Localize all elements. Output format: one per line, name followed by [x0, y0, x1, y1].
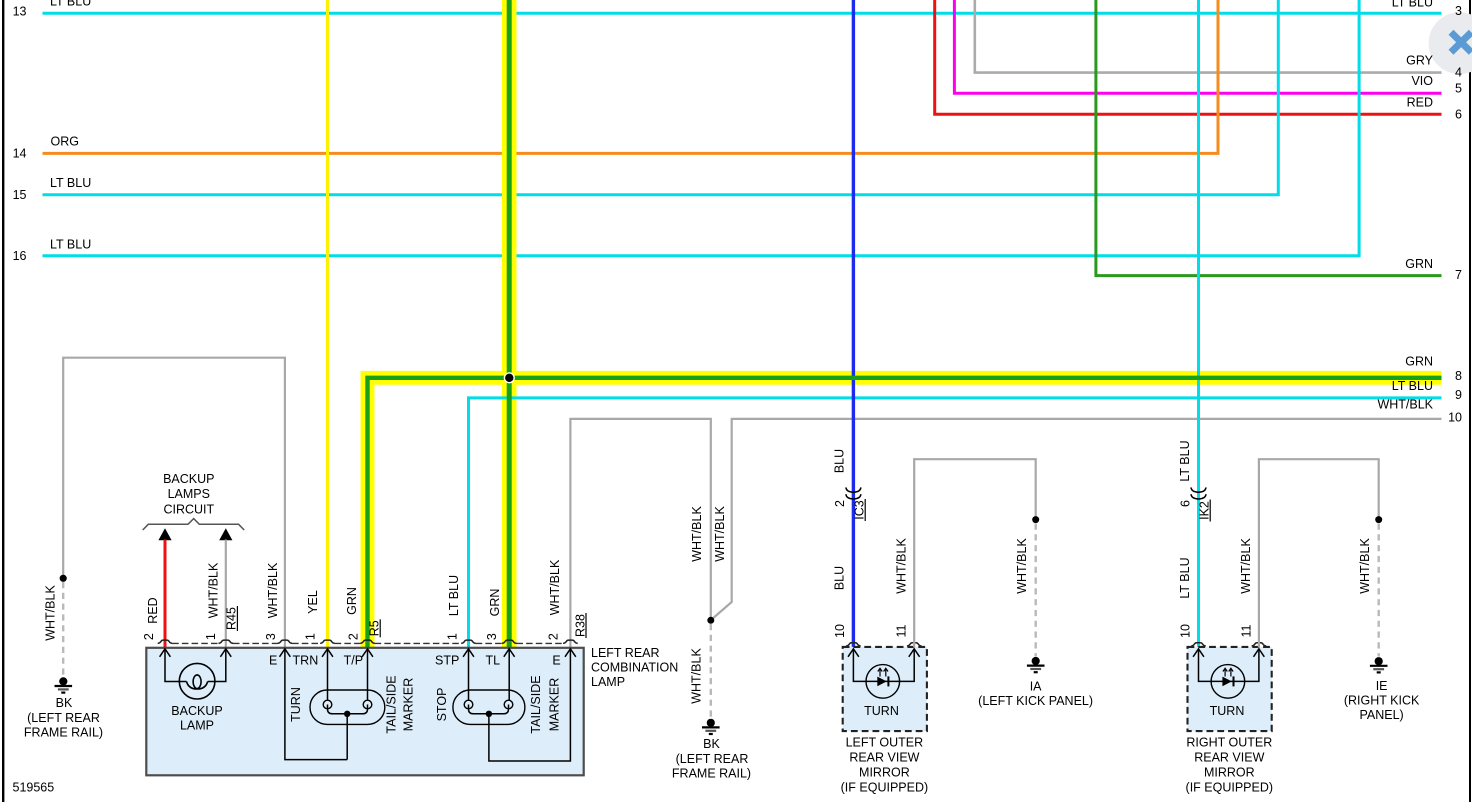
stop bulb oval: [453, 690, 525, 724]
svg-text:IC3: IC3: [853, 500, 867, 520]
svg-text:MIRROR: MIRROR: [859, 766, 910, 780]
arrow up backup WHT/BLK: [219, 528, 232, 540]
ground IE: [1370, 657, 1388, 672]
svg-text:TURN: TURN: [289, 687, 303, 722]
dashed WHT/BLK to IA ground: [1034, 524, 1036, 657]
svg-text:14: 14: [13, 147, 27, 161]
svg-text:STP: STP: [435, 654, 459, 668]
svg-text:E: E: [552, 654, 560, 668]
svg-text:BACKUP: BACKUP: [171, 704, 222, 718]
turn bulb oval: [310, 690, 385, 724]
svg-text:GRY: GRY: [1406, 53, 1434, 67]
svg-text:IK2: IK2: [1198, 501, 1212, 520]
svg-text:LAMP: LAMP: [180, 719, 214, 733]
svg-text:1: 1: [446, 633, 460, 640]
svg-text:COMBINATION: COMBINATION: [591, 661, 678, 675]
svg-text:WHT/BLK: WHT/BLK: [1377, 397, 1433, 411]
svg-text:11: 11: [895, 624, 909, 637]
backup lamp bulb: [179, 663, 215, 699]
arrow up backup RED: [158, 528, 171, 540]
wire WHT/BLK pin 11 right mirror: [1259, 459, 1379, 647]
wire GRN green core main vertical: [507, 0, 512, 648]
left mirror pin arrows: [848, 649, 859, 657]
connector IC3 on BLU wire: [846, 487, 861, 499]
right mirror pin bumps: [1191, 643, 1206, 646]
svg-text:2: 2: [347, 633, 361, 640]
svg-text:MIRROR: MIRROR: [1204, 766, 1255, 780]
svg-text:T/P: T/P: [344, 654, 363, 668]
border frame: [2, 0, 4, 802]
right mirror LED diode: [1222, 677, 1231, 687]
svg-text:WHT/BLK: WHT/BLK: [1358, 538, 1372, 594]
TL lead: [508, 649, 510, 701]
turn bulb bus: [328, 705, 368, 714]
TRN lead: [327, 649, 329, 701]
svg-text:IA: IA: [1030, 679, 1042, 693]
svg-text:E: E: [269, 654, 277, 668]
svg-text:WHT/BLK: WHT/BLK: [43, 585, 57, 641]
connector dashed line over lamp box: [172, 642, 563, 644]
left mirror LED diode: [877, 677, 886, 687]
svg-text:(RIGHT KICK: (RIGHT KICK: [1344, 694, 1420, 708]
svg-text:BLU: BLU: [833, 566, 847, 590]
svg-text:R45: R45: [225, 607, 239, 630]
svg-text:R38: R38: [573, 614, 587, 637]
svg-text:LT BLU: LT BLU: [1178, 557, 1192, 598]
svg-text:TURN: TURN: [864, 704, 899, 718]
splice dot left WHT/BLK: [60, 575, 67, 582]
ground BK left (far left): [55, 677, 73, 692]
svg-text:TAIL/SIDE: TAIL/SIDE: [384, 675, 398, 733]
svg-text:TRN: TRN: [293, 654, 319, 668]
dashed WHT/BLK to IE ground: [1377, 524, 1379, 657]
left mirror pin bumps: [846, 643, 861, 646]
left mirror box: [843, 647, 927, 731]
svg-text:WHT/BLK: WHT/BLK: [894, 538, 908, 594]
svg-text:BK: BK: [703, 737, 720, 751]
stop filament loops: [464, 700, 473, 709]
splice dot right kick panel wire: [1375, 516, 1382, 523]
svg-text:6: 6: [1178, 500, 1192, 507]
svg-text:BLU: BLU: [833, 449, 847, 473]
wire WHT/BLK pin 11 left mirror: [914, 459, 1035, 647]
ground IA: [1027, 657, 1045, 672]
splice dot WHT/BLK rear: [707, 617, 714, 624]
svg-text:RED: RED: [1407, 95, 1433, 109]
svg-text:3: 3: [1455, 4, 1462, 18]
wire YEL turn vertical: [326, 0, 329, 648]
stop bulb bus: [469, 705, 509, 714]
turn junction dot: [344, 711, 350, 717]
svg-text:10: 10: [1448, 410, 1462, 424]
svg-text:CIRCUIT: CIRCUIT: [163, 502, 214, 516]
wire GRN 7: [1096, 0, 1442, 276]
svg-text:LT BLU: LT BLU: [1178, 440, 1192, 481]
connector ref R38 underlined: [573, 613, 587, 638]
internal wires lamp box: [165, 649, 570, 761]
left mirror LED circle: [866, 665, 900, 699]
wire 13/3 LT BLU horizontal: [43, 12, 1442, 15]
svg-text:1: 1: [204, 633, 218, 640]
svg-text:5: 5: [1455, 82, 1462, 96]
svg-text:IE: IE: [1376, 679, 1388, 693]
wire GRN 8 highlighted: yellow band main vertical: [502, 0, 517, 648]
svg-text:VIO: VIO: [1411, 74, 1433, 88]
svg-text:WHT/BLK: WHT/BLK: [690, 506, 704, 562]
svg-text:9: 9: [1455, 388, 1462, 402]
svg-text:LT BLU: LT BLU: [50, 237, 91, 251]
svg-text:13: 13: [13, 5, 27, 19]
svg-text:FRAME RAIL): FRAME RAIL): [24, 725, 103, 739]
svg-text:(LEFT KICK PANEL): (LEFT KICK PANEL): [978, 694, 1093, 708]
svg-text:TAIL/SIDE: TAIL/SIDE: [529, 675, 543, 733]
svg-text:MARKER: MARKER: [402, 678, 416, 731]
wire VIO 5: [954, 0, 1441, 93]
wire LT BLU mirror right vertical: [1197, 0, 1200, 648]
svg-text:WHT/BLK: WHT/BLK: [713, 506, 727, 562]
svg-text:(IF EQUIPPED): (IF EQUIPPED): [1186, 781, 1274, 795]
svg-text:LT BLU: LT BLU: [50, 176, 91, 190]
svg-text:LT BLU: LT BLU: [1392, 0, 1433, 10]
STP lead: [468, 649, 470, 701]
T/P lead: [367, 649, 369, 701]
svg-text:REAR VIEW: REAR VIEW: [1194, 751, 1264, 765]
svg-text:LT BLU: LT BLU: [50, 0, 91, 8]
svg-text:YEL: YEL: [306, 590, 320, 614]
svg-text:LEFT OUTER: LEFT OUTER: [846, 736, 924, 750]
svg-text:6: 6: [1455, 108, 1462, 122]
wire RED 6: [935, 0, 1442, 114]
ground BK left rear frame rail (center): [702, 719, 720, 734]
svg-text:LEFT REAR: LEFT REAR: [591, 646, 660, 660]
svg-text:(IF EQUIPPED): (IF EQUIPPED): [841, 781, 929, 795]
left mirror internal wires: [853, 649, 914, 682]
svg-text:WHT/BLK: WHT/BLK: [548, 559, 562, 615]
connector ref IK2 underlined: [1198, 500, 1212, 522]
svg-text:BK: BK: [56, 696, 73, 710]
svg-text:GRN: GRN: [1405, 354, 1433, 368]
svg-text:WHT/BLK: WHT/BLK: [1239, 538, 1253, 594]
svg-text:RED: RED: [146, 597, 160, 623]
right mirror internal wires: [1199, 649, 1259, 682]
svg-text:REAR VIEW: REAR VIEW: [849, 751, 919, 765]
svg-text:2: 2: [142, 633, 156, 640]
dashed WHT/BLK to left ground: [62, 582, 64, 677]
wire LT BLU 9 to STP pin: [469, 398, 1442, 648]
svg-text:16: 16: [13, 249, 27, 263]
pin arrows lamp box: [160, 649, 171, 657]
connector ref R45 underlined: [225, 606, 239, 631]
svg-text:WHT/BLK: WHT/BLK: [690, 648, 704, 704]
left rear combination lamp box: [146, 648, 583, 776]
backup lamp leads: [165, 649, 226, 682]
wire BLU mirror left vertical: [852, 0, 855, 648]
splice dot left kick panel wire: [1032, 516, 1039, 523]
svg-text:10: 10: [833, 624, 847, 638]
junction halo yellow: [501, 369, 518, 386]
svg-text:GRN: GRN: [345, 587, 359, 615]
brace: [143, 519, 245, 530]
svg-text:WHT/BLK: WHT/BLK: [207, 562, 221, 618]
wire GRY 4: [975, 0, 1442, 73]
svg-text:15: 15: [13, 188, 27, 202]
wire WHT/BLK left loop from pin 3: [63, 358, 285, 648]
E pin 3 lead down to turn rail: [285, 649, 347, 760]
svg-text:(LEFT REAR: (LEFT REAR: [27, 711, 100, 725]
svg-text:WHT/BLK: WHT/BLK: [266, 562, 280, 618]
svg-text:4: 4: [1455, 66, 1462, 80]
svg-text:(LEFT REAR: (LEFT REAR: [676, 752, 749, 766]
pin bumps lamp box: [158, 640, 173, 643]
svg-text:MARKER: MARKER: [548, 678, 562, 731]
wire WHT/BLK from E pin R38 loop: [570, 419, 710, 648]
stop bulb to rail and E pin 2: [489, 649, 571, 761]
turn bulb to rail: [346, 714, 348, 760]
svg-text:519565: 519565: [13, 781, 55, 795]
svg-text:GRN: GRN: [1405, 257, 1433, 271]
svg-text:10: 10: [1178, 624, 1192, 638]
svg-text:R5: R5: [368, 620, 382, 636]
wire LT BLU 16: [43, 0, 1360, 256]
svg-text:LAMPS: LAMPS: [168, 487, 210, 501]
wire WHT/BLK 10 with diagonal to splice: [712, 419, 1442, 620]
wire WHT/BLK backup R45: [225, 540, 227, 648]
svg-text:RIGHT OUTER: RIGHT OUTER: [1186, 736, 1272, 750]
svg-text:3: 3: [264, 633, 278, 640]
right mirror pin arrows: [1193, 649, 1204, 657]
left mirror LED emission arrows: [878, 668, 882, 676]
svg-text:LAMP: LAMP: [591, 675, 625, 689]
junction dot on GRN 8: [504, 372, 515, 383]
svg-text:WHT/BLK: WHT/BLK: [1015, 538, 1029, 594]
wire RED backup: [164, 540, 167, 648]
svg-text:ORG: ORG: [51, 134, 79, 148]
svg-text:1: 1: [304, 633, 318, 640]
connector IK2 on LT BLU wire: [1191, 487, 1206, 499]
svg-text:2: 2: [833, 500, 847, 507]
connector ref IC3 underlined: [853, 499, 867, 521]
svg-text:11: 11: [1239, 624, 1253, 637]
right mirror box: [1188, 647, 1272, 731]
svg-text:STOP: STOP: [435, 688, 449, 722]
svg-text:BACKUP: BACKUP: [163, 472, 214, 486]
svg-text:TURN: TURN: [1210, 704, 1245, 718]
svg-text:GRN: GRN: [488, 589, 502, 617]
wire LT BLU 15: [43, 0, 1279, 195]
svg-text:FRAME RAIL): FRAME RAIL): [672, 767, 751, 781]
svg-text:8: 8: [1455, 369, 1462, 383]
svg-text:2: 2: [547, 633, 561, 640]
wire ORG 14: [43, 0, 1219, 153]
turn filament loops: [323, 700, 332, 709]
close button: [1429, 12, 1472, 74]
dashed WHT/BLK to frame rail ground: [710, 624, 712, 718]
stop junction dot: [486, 711, 492, 717]
right mirror LED emission arrows: [1223, 668, 1227, 676]
svg-text:LT BLU: LT BLU: [447, 575, 461, 616]
right mirror LED circle: [1211, 665, 1245, 699]
connector ref R5 underlined: [368, 619, 382, 637]
svg-text:3: 3: [485, 633, 499, 640]
svg-text:7: 7: [1455, 268, 1462, 282]
svg-text:PANEL): PANEL): [1359, 708, 1403, 722]
wire GRN 8 green core L-corner to T/P pin: [368, 378, 1442, 648]
wire GRN 8 highlighted: yellow band L-corner to T/P pin: [368, 378, 1442, 648]
svg-text:TL: TL: [486, 654, 501, 668]
svg-text:LT BLU: LT BLU: [1392, 379, 1433, 393]
